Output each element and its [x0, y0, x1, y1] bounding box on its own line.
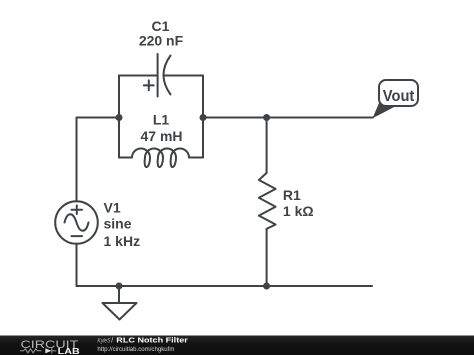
svg-text:1 kHz: 1 kHz	[104, 233, 141, 249]
svg-text:sine: sine	[104, 216, 132, 232]
svg-text:47 mH: 47 mH	[140, 128, 182, 144]
svg-text:Vout: Vout	[383, 88, 415, 105]
svg-text:LAB: LAB	[58, 347, 80, 355]
svg-text:http://circuitlab.com/chgkufm: http://circuitlab.com/chgkufm	[97, 346, 174, 353]
svg-text:1 kΩ: 1 kΩ	[283, 203, 314, 219]
svg-text:L1: L1	[153, 112, 170, 128]
svg-text:V1: V1	[104, 199, 121, 215]
svg-text:RLC Notch Filter: RLC Notch Filter	[116, 335, 188, 344]
svg-text:KyleS: KyleS	[97, 337, 111, 344]
svg-text:R1: R1	[283, 187, 301, 203]
svg-text:/: /	[111, 337, 113, 344]
svg-text:220 nF: 220 nF	[139, 33, 184, 49]
